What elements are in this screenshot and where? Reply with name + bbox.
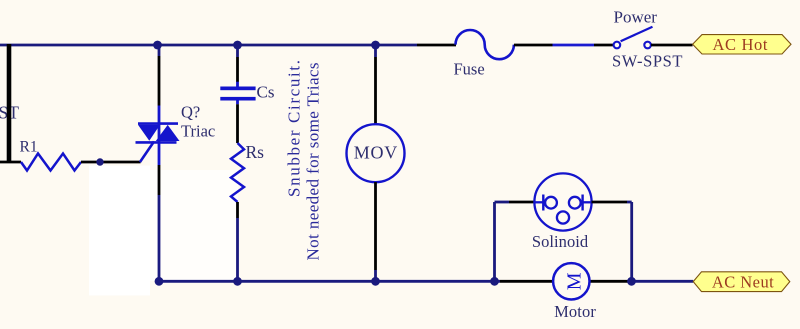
wire motor to AC Neut flag [632,280,693,283]
net flag AC Hot [693,35,791,54]
svg-text:R1: R1 [20,139,38,156]
motor left pin [500,280,553,283]
MOV bottom pin [374,182,377,270]
svg-text:Q?: Q? [181,103,200,122]
junction dot bottom rail at Rs branch [233,277,242,286]
wire R1 to triac gate [81,161,141,164]
wire fuse left pin [417,44,456,47]
junction dot on gate wire [96,158,103,165]
wire Cs to Rs [236,104,239,143]
junction dot bottom rail right of motor [627,277,636,286]
svg-text:Rs: Rs [246,142,265,162]
svg-text:Cs: Cs [257,83,275,102]
svg-text:AC Neut: AC Neut [712,273,774,292]
junction dot top rail at triac branch [153,41,162,50]
switch SW-SPST right contact [644,42,651,49]
wire top rail to triac MT2 [158,45,161,56]
svg-text:Power: Power [614,8,658,27]
svg-text:Fuse: Fuse [454,60,485,79]
triac Q? [136,106,180,163]
svg-text:Triac: Triac [181,122,215,141]
wire solenoid left branch horizontal [495,201,510,204]
motor M [553,263,589,299]
wire MOV to bottom rail [374,270,377,281]
fuse F1 [456,30,514,59]
wire triac MT1 to bottom rail [158,195,161,281]
opto-isolator body edge (thick bar, clipped at left) [7,44,12,163]
wire switch left pin [594,44,613,47]
svg-text:M: M [563,272,585,290]
net flag AC Neut [693,272,790,292]
switch SW-SPST blade [621,27,653,41]
solenoid right pin [592,201,628,204]
solenoid left pin [509,201,534,204]
junction dot bottom rail at MOV branch [371,277,380,286]
capacitor Cs [220,82,255,105]
svg-text:SW-SPST: SW-SPST [612,52,683,71]
wire switch to AC Hot flag [651,44,693,47]
wire fuse to switch [553,44,595,47]
wire Rs to bottom rail [236,218,239,281]
junction dot bottom rail at solenoid branch [490,277,499,286]
resistor R1 [21,154,81,171]
triac MT2 pin [158,56,161,106]
svg-text:Solinoid: Solinoid [532,232,589,251]
wire bottom rail (AC Neut net) [159,280,500,283]
junction dot top rail at Cs branch [233,41,242,50]
wire solenoid left branch vertical [493,202,496,281]
wire solenoid right branch horizontal [627,201,632,204]
solenoid connector J? [534,173,591,230]
svg-text:Not needed for some Triacs: Not needed for some Triacs [304,63,323,261]
svg-text:MOV: MOV [354,143,398,163]
motor right pin [590,280,633,283]
MOV top pin [374,57,377,125]
svg-text:Motor: Motor [554,302,596,321]
wire left edge to R1 [0,161,21,164]
Cs top pin [236,57,239,82]
wire top rail (AC Hot net) [0,44,417,47]
junction dot top rail at MOV branch [371,41,380,50]
wire fuse right pin [514,44,553,47]
junction dot bottom rail at triac branch [155,277,164,286]
resistor Rs [231,143,244,202]
Rs bottom pin [236,202,239,218]
switch SW-SPST left contact [614,42,621,49]
wire top rail to Cs [236,45,239,57]
varistor MOV [347,124,405,182]
wire top rail to MOV [374,45,377,57]
wire solenoid right branch vertical [630,202,633,281]
triac MT1 pin [158,150,161,165]
svg-text:Snubber Circuit.: Snubber Circuit. [285,60,304,197]
svg-text:AC Hot: AC Hot [713,35,768,54]
